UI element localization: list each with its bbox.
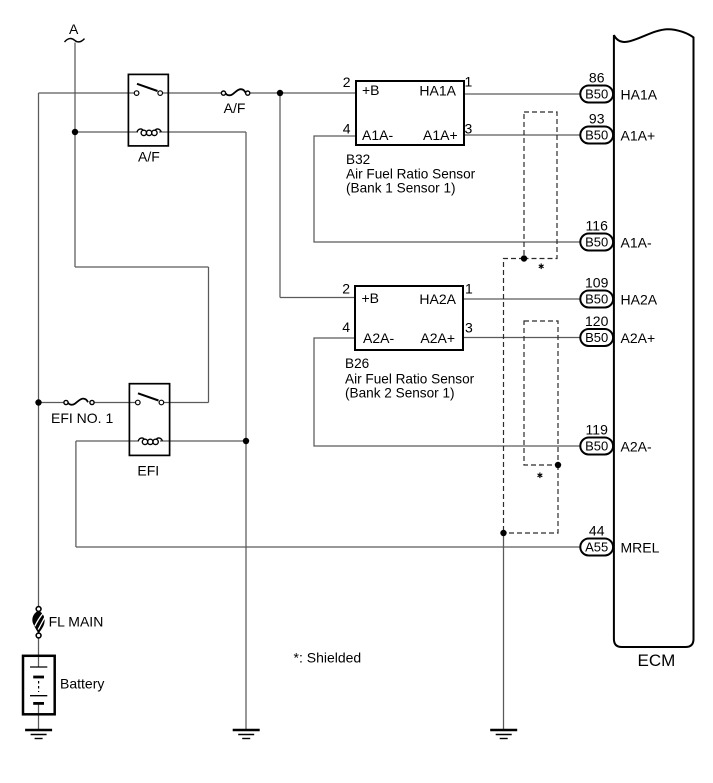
wire MREL horizontal to ECM A55 — [76, 546, 581, 548]
wire battery bottom lead — [38, 704, 40, 731]
wire B32 pin3 to ECM 93 — [464, 134, 581, 136]
svg-text:Air Fuel Ratio Sensor: Air Fuel Ratio Sensor — [345, 372, 475, 387]
fusible link FL MAIN — [32, 607, 103, 638]
svg-text:+B: +B — [362, 290, 380, 306]
sensor B32 pin labels — [343, 74, 473, 143]
shield asterisk 2 — [538, 473, 543, 479]
ECM pin 93 A1A+ — [580, 111, 655, 144]
wire shield drain ground vertical x=503.5 — [503, 533, 505, 730]
svg-text:120: 120 — [585, 313, 609, 329]
svg-text:B32: B32 — [346, 152, 370, 167]
shield drain 2 (dashed) — [504, 465, 559, 533]
wire A vertical feed — [74, 43, 76, 268]
wire A/F relay coil left lead — [75, 131, 138, 133]
wire EFI NO.1 fuse to EFI relay — [92, 402, 138, 404]
svg-text:B50: B50 — [585, 439, 608, 454]
ECM pin 86 HA1A — [580, 70, 657, 103]
wire A/F relay coil right lead to ground line — [159, 131, 246, 133]
relay EFI contact — [136, 393, 164, 405]
relay A/F contact — [134, 84, 162, 96]
wire fuse A/F to sensor B32 pin2 — [248, 92, 356, 94]
svg-text:1: 1 — [465, 74, 473, 90]
svg-text:119: 119 — [586, 422, 609, 438]
svg-text:4: 4 — [342, 319, 350, 335]
svg-text:Battery: Battery — [60, 676, 104, 692]
svg-text:A55: A55 — [585, 540, 608, 555]
svg-text:B50: B50 — [585, 235, 608, 250]
svg-text:(Bank 1 Sensor 1): (Bank 1 Sensor 1) — [346, 181, 456, 196]
junction node shield2 (558,465) — [555, 462, 561, 468]
svg-text:A1A-: A1A- — [362, 127, 393, 143]
relay EFI coil — [138, 438, 162, 445]
svg-text:3: 3 — [465, 121, 473, 137]
svg-text:FL MAIN: FL MAIN — [49, 614, 104, 630]
svg-text:A1A-: A1A- — [621, 234, 652, 250]
wire B26 pin3 to ECM 120 — [463, 337, 581, 339]
junction node at A/F coil (75,132) — [72, 129, 78, 135]
wire B26 pin4 lead — [314, 338, 581, 446]
wire B32 pin1 to ECM 86 — [464, 93, 581, 95]
svg-text:A2A+: A2A+ — [621, 330, 656, 346]
ECM box — [614, 29, 694, 647]
svg-text:B50: B50 — [585, 330, 608, 345]
svg-text:2: 2 — [343, 74, 351, 90]
svg-text:B50: B50 — [585, 292, 608, 307]
sensor B26 pin labels — [342, 281, 473, 347]
battery — [23, 656, 104, 715]
svg-text:HA1A: HA1A — [419, 82, 456, 98]
ground for relay coils x=246 — [233, 730, 260, 739]
node A label — [65, 21, 85, 42]
wire to B26 pin2 — [280, 297, 355, 299]
svg-text:116: 116 — [586, 218, 609, 234]
ECM pin 120 A2A+ — [580, 313, 655, 346]
relay EFI box — [129, 384, 169, 456]
shield box sensor1 (dashed) — [524, 112, 557, 259]
wire A loop to EFI relay contact: horizontal y=267 — [75, 266, 209, 268]
junction node EFI NO.1 branch (38.5,402.5) — [35, 399, 41, 405]
svg-text:93: 93 — [589, 111, 605, 127]
svg-text:B50: B50 — [585, 87, 608, 102]
svg-text:1: 1 — [465, 281, 473, 297]
svg-text:4: 4 — [343, 121, 351, 137]
wire vertical x=208.5 — [208, 267, 210, 403]
svg-text:*: Shielded: *: Shielded — [294, 650, 362, 666]
sensor B26 caption — [345, 356, 475, 401]
junction node after A/F fuse (280,93) — [277, 90, 283, 96]
ECM pin 109 HA2A — [580, 275, 657, 308]
ground below battery — [25, 730, 52, 739]
svg-text:A2A-: A2A- — [363, 330, 394, 346]
sensor B32 caption — [346, 152, 476, 196]
svg-text:109: 109 — [585, 275, 609, 291]
svg-text:HA2A: HA2A — [419, 291, 456, 307]
ECM pin 44 MREL — [580, 523, 659, 556]
relay A/F box — [128, 74, 168, 145]
wire B32 pin4 lead — [314, 136, 581, 242]
svg-text:A1A+: A1A+ — [423, 127, 458, 143]
svg-text:2: 2 — [342, 281, 350, 297]
wire branch down x=280 to sensor B26 pin2 — [279, 93, 281, 298]
relay A/F coil — [137, 129, 161, 136]
junction node EFI coil to ground line (246,441) — [243, 438, 249, 444]
wire EFI relay contact right lead — [162, 402, 209, 404]
shield box sensor2 (dashed) — [524, 321, 558, 465]
junction node shield1 (524,258.5) — [521, 255, 527, 261]
ECM pin 119 A2A- — [580, 422, 652, 455]
sensor B32 box — [356, 81, 464, 145]
svg-text:EFI NO. 1: EFI NO. 1 — [51, 410, 113, 426]
wire A/F relay contact feed y=93 — [39, 92, 137, 94]
svg-text:(Bank 2 Sensor 1): (Bank 2 Sensor 1) — [345, 386, 455, 401]
svg-text:EFI: EFI — [137, 463, 159, 479]
wire ground vertical x=246 — [245, 132, 247, 730]
wire MREL vertical x=75.9 — [75, 441, 77, 547]
svg-text:86: 86 — [589, 70, 605, 86]
svg-text:A2A-: A2A- — [621, 438, 652, 454]
svg-text:B26: B26 — [345, 356, 369, 371]
wire A/F relay contact output to fuse — [160, 92, 224, 94]
svg-text:HA2A: HA2A — [621, 291, 658, 307]
svg-text:A2A+: A2A+ — [420, 330, 455, 346]
svg-text:+B: +B — [362, 82, 380, 98]
ground for shield drain x=503.5 — [490, 730, 517, 739]
svg-text:MREL: MREL — [621, 539, 660, 555]
wire EFI relay coil left lead (MREL) — [76, 440, 139, 442]
shield drain 1 (dashed) — [504, 259, 525, 534]
svg-text:A/F: A/F — [138, 149, 160, 165]
sensor B26 box — [355, 286, 463, 350]
fuse A/F — [221, 89, 249, 116]
svg-text:44: 44 — [589, 523, 605, 539]
wire battery main vertical x=38.5 — [38, 93, 40, 609]
ECM pin 116 A1A- — [580, 218, 652, 251]
fuse EFI NO.1 — [51, 399, 113, 426]
shield asterisk 1 — [539, 264, 544, 270]
wire EFI relay coil right lead — [160, 440, 246, 442]
wire B26 pin1 to ECM 109 — [463, 298, 581, 300]
svg-text:B50: B50 — [585, 128, 608, 143]
wire battery top lead — [38, 637, 40, 667]
svg-text:Air Fuel Ratio Sensor: Air Fuel Ratio Sensor — [346, 167, 476, 182]
wire EFI NO.1 fuse feed — [39, 402, 67, 404]
svg-text:A: A — [69, 21, 79, 37]
svg-text:3: 3 — [465, 320, 473, 336]
svg-text:ECM: ECM — [638, 651, 676, 670]
junction node drains (503.5,533) — [500, 530, 506, 536]
svg-text:HA1A: HA1A — [621, 86, 658, 102]
svg-text:A/F: A/F — [224, 100, 246, 116]
svg-text:A1A+: A1A+ — [621, 127, 656, 143]
